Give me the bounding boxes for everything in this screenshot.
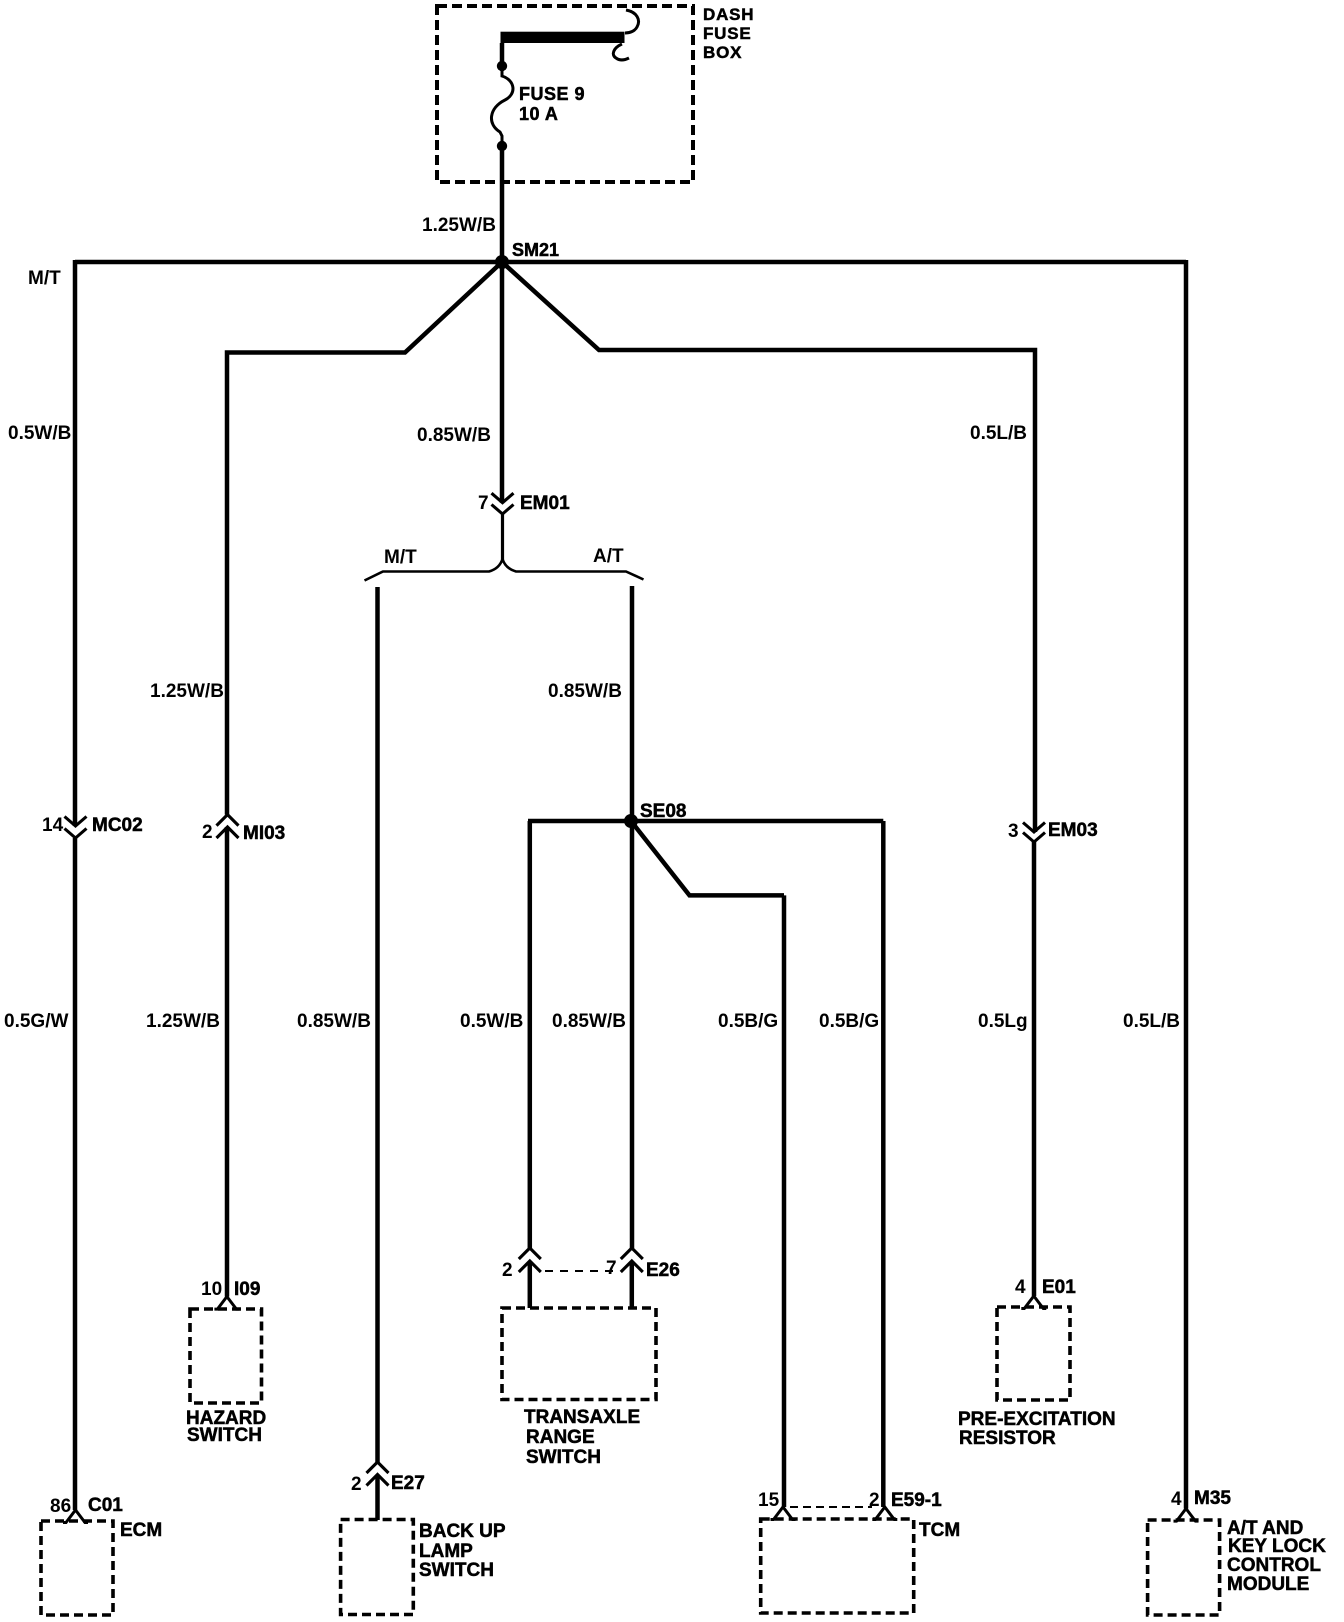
svg-text:M/T: M/T	[384, 547, 417, 568]
svg-text:86: 86	[50, 1496, 71, 1517]
svg-text:RESISTOR: RESISTOR	[959, 1428, 1056, 1449]
svg-text:0.5W/B: 0.5W/B	[460, 1011, 523, 1032]
svg-text:10: 10	[201, 1279, 222, 1300]
svg-text:1.25W/B: 1.25W/B	[146, 1011, 220, 1032]
svg-text:E27: E27	[391, 1473, 425, 1494]
svg-text:LAMP: LAMP	[419, 1541, 473, 1562]
svg-text:C01: C01	[88, 1495, 123, 1516]
svg-text:SWITCH: SWITCH	[526, 1447, 601, 1468]
svg-text:SM21: SM21	[512, 240, 559, 260]
svg-text:BOX: BOX	[703, 43, 742, 62]
svg-text:MI03: MI03	[243, 823, 285, 844]
svg-text:0.85W/B: 0.85W/B	[552, 1011, 626, 1032]
svg-text:0.5B/G: 0.5B/G	[819, 1011, 879, 1032]
svg-text:DASH: DASH	[703, 5, 754, 24]
svg-text:M/T: M/T	[28, 268, 61, 289]
svg-text:E26: E26	[646, 1260, 680, 1281]
svg-text:4: 4	[1015, 1277, 1026, 1298]
svg-text:7: 7	[606, 1258, 617, 1279]
svg-text:M35: M35	[1194, 1488, 1231, 1509]
svg-text:TRANSAXLE: TRANSAXLE	[524, 1407, 640, 1428]
svg-text:SE08: SE08	[640, 801, 686, 822]
svg-text:FUSE: FUSE	[703, 24, 752, 43]
svg-text:PRE-EXCITATION: PRE-EXCITATION	[958, 1409, 1116, 1430]
svg-text:SWITCH: SWITCH	[419, 1560, 494, 1581]
svg-text:15: 15	[758, 1490, 780, 1511]
svg-text:0.85W/B: 0.85W/B	[548, 681, 622, 702]
svg-text:FUSE 9: FUSE 9	[519, 84, 585, 104]
svg-text:10 A: 10 A	[519, 104, 558, 124]
svg-text:2: 2	[502, 1260, 513, 1281]
svg-text:E01: E01	[1042, 1277, 1076, 1298]
svg-text:EM01: EM01	[520, 493, 570, 514]
svg-text:BACK UP: BACK UP	[419, 1521, 506, 1542]
svg-text:0.85W/B: 0.85W/B	[417, 425, 491, 446]
svg-text:0.5W/B: 0.5W/B	[8, 423, 71, 444]
svg-text:0.5Lg: 0.5Lg	[978, 1011, 1028, 1032]
svg-text:1.25W/B: 1.25W/B	[422, 215, 496, 236]
svg-text:2: 2	[869, 1490, 880, 1511]
svg-text:E59-1: E59-1	[891, 1490, 942, 1511]
svg-text:MODULE: MODULE	[1227, 1574, 1309, 1595]
svg-text:3: 3	[1008, 821, 1019, 842]
svg-text:1.25W/B: 1.25W/B	[150, 681, 224, 702]
svg-text:ECM: ECM	[120, 1520, 162, 1541]
svg-text:0.5B/G: 0.5B/G	[718, 1011, 778, 1032]
svg-text:14: 14	[42, 815, 64, 836]
svg-text:MC02: MC02	[92, 815, 143, 836]
svg-text:TCM: TCM	[919, 1520, 960, 1541]
svg-text:CONTROL: CONTROL	[1227, 1555, 1321, 1576]
svg-text:0.5L/B: 0.5L/B	[970, 423, 1027, 444]
svg-text:7: 7	[478, 493, 489, 514]
svg-text:A/T: A/T	[593, 546, 624, 567]
svg-text:EM03: EM03	[1048, 820, 1098, 841]
svg-text:I09: I09	[234, 1279, 260, 1300]
svg-text:0.5G/W: 0.5G/W	[4, 1011, 68, 1032]
svg-text:0.5L/B: 0.5L/B	[1123, 1011, 1180, 1032]
svg-text:KEY LOCK: KEY LOCK	[1228, 1536, 1326, 1557]
svg-text:SWITCH: SWITCH	[187, 1425, 262, 1446]
svg-text:4: 4	[1171, 1489, 1182, 1510]
svg-text:2: 2	[351, 1474, 362, 1495]
svg-text:0.85W/B: 0.85W/B	[297, 1011, 371, 1032]
svg-text:2: 2	[202, 822, 213, 843]
svg-text:RANGE: RANGE	[526, 1427, 595, 1448]
